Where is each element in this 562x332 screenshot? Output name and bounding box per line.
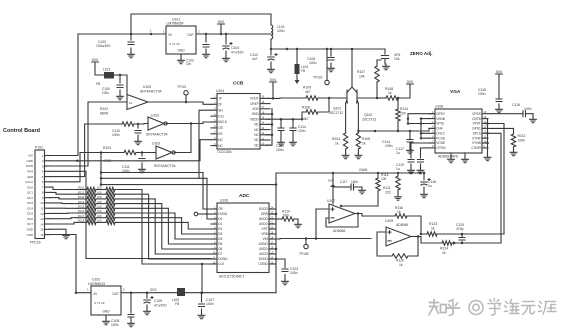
transistor Q102 bbox=[357, 90, 358, 105]
svg-text:VREF: VREF bbox=[250, 102, 259, 106]
wire U107 feedback bbox=[326, 214, 362, 228]
wire U107 +input bbox=[316, 209, 329, 239]
ground bbox=[496, 107, 503, 113]
wire vertical to VGA G bbox=[488, 133, 501, 243]
ground regulator bbox=[105, 315, 107, 319]
svg-text:5V0: 5V0 bbox=[407, 80, 413, 84]
svg-text:100n: 100n bbox=[112, 133, 120, 137]
svg-text:D0: D0 bbox=[218, 217, 222, 221]
svg-text:R104: R104 bbox=[332, 137, 340, 141]
svg-text:DRB: DRB bbox=[261, 212, 268, 216]
ground bbox=[407, 148, 414, 154]
svg-text:SN74AHCT04: SN74AHCT04 bbox=[140, 89, 162, 93]
svg-text:FB: FB bbox=[301, 69, 305, 73]
svg-text:ADC: ADC bbox=[239, 193, 250, 199]
svg-text:NC: NC bbox=[218, 144, 223, 148]
capacitor C117 bbox=[411, 143, 429, 168]
power 5V0 top bbox=[218, 24, 225, 28]
ferrite bead L105 bbox=[177, 288, 185, 296]
svg-text:R114: R114 bbox=[400, 107, 408, 111]
svg-text:100n: 100n bbox=[290, 271, 298, 275]
svg-text:1k: 1k bbox=[335, 142, 339, 146]
svg-text:1: 1 bbox=[163, 30, 165, 34]
svg-text:5: 5 bbox=[42, 175, 44, 179]
svg-text:SN74AHCT04: SN74AHCT04 bbox=[146, 133, 168, 137]
svg-text:CNTB: CNTB bbox=[472, 117, 481, 121]
resistor R115 bbox=[50, 207, 78, 209]
svg-text:GPSY: GPSY bbox=[436, 112, 446, 116]
svg-text:1: 1 bbox=[42, 154, 44, 158]
svg-text:CPGN: CPGN bbox=[436, 146, 446, 150]
svg-text:CLK: CLK bbox=[218, 262, 225, 266]
svg-text:100n: 100n bbox=[351, 180, 358, 184]
ground bbox=[268, 67, 275, 73]
ground VGA bottom bbox=[450, 153, 452, 157]
svg-text:VYNB: VYNB bbox=[472, 141, 481, 145]
resistor R112 bbox=[511, 134, 515, 147]
svg-text:10n: 10n bbox=[186, 62, 192, 66]
wire U103 output bbox=[174, 124, 191, 153]
svg-text:5V0: 5V0 bbox=[92, 58, 98, 62]
svg-text:GND: GND bbox=[177, 49, 185, 53]
svg-text:OS: OS bbox=[218, 126, 223, 130]
buffer U105 bbox=[127, 95, 148, 110]
svg-text:CGNR: CGNR bbox=[471, 146, 481, 150]
svg-text:FCLU: FCLU bbox=[25, 180, 33, 184]
svg-text:C TL nF: C TL nF bbox=[94, 301, 105, 305]
svg-text:R106: R106 bbox=[302, 106, 310, 110]
wire vertical to VGA R bbox=[488, 124, 504, 235]
capacitor C114 bbox=[292, 119, 294, 140]
svg-text:D5: D5 bbox=[218, 242, 222, 246]
resistor R110 bbox=[269, 218, 282, 220]
resistor R113 bbox=[50, 198, 78, 199]
capacitor C105 bbox=[119, 74, 122, 77]
svg-text:GND: GND bbox=[27, 227, 33, 231]
svg-text:U104: U104 bbox=[216, 89, 224, 93]
svg-text:1u: 1u bbox=[428, 184, 432, 188]
svg-text:VPSL: VPSL bbox=[436, 122, 444, 126]
node OE stub bbox=[194, 212, 198, 216]
svg-text:1k: 1k bbox=[388, 91, 392, 95]
svg-text:1: 1 bbox=[87, 288, 89, 292]
svg-text:R109: R109 bbox=[303, 86, 311, 90]
power arrow CCD supply bbox=[295, 80, 300, 84]
svg-text:DC4: DC4 bbox=[27, 206, 33, 210]
svg-text:DGND: DGND bbox=[258, 262, 268, 266]
svg-text:ICG: ICG bbox=[218, 114, 224, 118]
ground bbox=[417, 168, 424, 174]
resistor R105 bbox=[356, 133, 360, 149]
ground connector pin15 bbox=[50, 229, 66, 233]
resistor R108 bbox=[386, 96, 398, 100]
wire VGA right pin4 to R112 bbox=[488, 128, 514, 134]
svg-text:MCLK: MCLK bbox=[218, 120, 228, 124]
svg-text:220: 220 bbox=[385, 191, 391, 195]
svg-text:3V3: 3V3 bbox=[150, 288, 156, 292]
capacitor C119 bbox=[421, 148, 430, 168]
IC U106 ADC bbox=[217, 203, 269, 273]
svg-text:500: 500 bbox=[283, 214, 289, 218]
svg-text:1k: 1k bbox=[442, 251, 446, 255]
ground bbox=[342, 153, 349, 159]
resistor R115 bbox=[377, 173, 379, 178]
svg-text:DC2: DC2 bbox=[27, 196, 33, 200]
svg-text:DC7: DC7 bbox=[27, 222, 33, 226]
ferrite bead L103 bbox=[104, 72, 114, 79]
svg-text:VPSS: VPSS bbox=[472, 112, 481, 116]
svg-text:R124: R124 bbox=[440, 247, 448, 251]
svg-text:R107: R107 bbox=[357, 70, 365, 74]
svg-text:OE: OE bbox=[218, 207, 223, 211]
ground bbox=[135, 139, 142, 145]
svg-text:PCUE: PCUE bbox=[436, 136, 445, 140]
wire U105 input bbox=[50, 102, 127, 166]
svg-text:4k7: 4k7 bbox=[303, 117, 309, 121]
resistor R104 bbox=[343, 133, 347, 149]
svg-text:SH: SH bbox=[218, 108, 223, 112]
svg-text:VSNB: VSNB bbox=[436, 117, 445, 121]
svg-text:U106: U106 bbox=[220, 199, 228, 203]
svg-text:3: 3 bbox=[42, 164, 44, 168]
ground regulator tab bbox=[180, 54, 182, 58]
svg-text:D1: D1 bbox=[218, 222, 222, 226]
svg-text:IN: IN bbox=[169, 33, 173, 37]
trimmer VR1 zero adjust bbox=[384, 49, 386, 54]
capacitor C120 bbox=[461, 234, 463, 243]
svg-text:D7: D7 bbox=[218, 252, 222, 256]
svg-text:NC: NC bbox=[218, 138, 223, 142]
svg-text:AD8066: AD8066 bbox=[396, 223, 408, 227]
svg-text:DVDD: DVDD bbox=[259, 207, 269, 211]
ground bbox=[290, 140, 297, 146]
svg-text:VRB: VRB bbox=[261, 232, 268, 236]
wire VGA right ground tie bbox=[487, 119, 489, 155]
svg-text:100n: 100n bbox=[206, 302, 214, 306]
svg-text:10k: 10k bbox=[359, 75, 365, 79]
resistor R117 bbox=[50, 218, 78, 219]
ground bbox=[278, 140, 285, 146]
svg-text:16: 16 bbox=[40, 233, 44, 237]
svg-text:GND: GND bbox=[102, 310, 110, 314]
svg-text:AD8SS3ARS: AD8SS3ARS bbox=[438, 155, 459, 159]
voltage regulator U101 bbox=[166, 26, 196, 54]
ground bbox=[510, 150, 517, 156]
ground bbox=[328, 66, 335, 72]
ground bbox=[128, 52, 135, 58]
ground bbox=[223, 56, 230, 62]
svg-text:100u/16V: 100u/16V bbox=[96, 44, 111, 48]
resistor R106 bbox=[302, 112, 306, 119]
wire R115 to opamp bbox=[341, 205, 378, 207]
wire bases bbox=[340, 97, 377, 99]
ground bbox=[421, 192, 428, 198]
ground bbox=[408, 168, 415, 174]
connector P101 bbox=[35, 150, 45, 239]
svg-text:1k: 1k bbox=[431, 227, 435, 231]
capacitor C106 bbox=[330, 49, 332, 66]
resistor R123 bbox=[427, 232, 437, 236]
svg-text:AVDD: AVDD bbox=[259, 247, 268, 251]
wire U105 output bbox=[148, 102, 211, 104]
svg-text:SPLS: SPLS bbox=[473, 132, 481, 136]
svg-text:5V0: 5V0 bbox=[218, 20, 224, 24]
op-amp U107 bbox=[329, 204, 355, 223]
power 5V0 bias bbox=[407, 84, 414, 88]
svg-text:7: 7 bbox=[42, 185, 44, 189]
ground bbox=[530, 117, 537, 123]
svg-text:NC: NC bbox=[254, 128, 259, 132]
svg-text:1u: 1u bbox=[396, 151, 400, 155]
wire U109 feedback R120 bbox=[377, 232, 392, 256]
svg-text:L103: L103 bbox=[103, 68, 110, 72]
wire connector pin16 to regulator bbox=[50, 235, 76, 293]
capacitor C103 bbox=[205, 34, 207, 52]
svg-text:10k: 10k bbox=[394, 57, 400, 61]
svg-text:1k: 1k bbox=[397, 210, 401, 214]
svg-text:1k: 1k bbox=[399, 263, 403, 267]
wire CCD vref bbox=[266, 118, 302, 120]
svg-text:R103: R103 bbox=[103, 146, 111, 150]
wire R102 from connector bbox=[50, 124, 85, 177]
svg-text:14: 14 bbox=[40, 222, 44, 226]
wire U107 out to R106b bbox=[362, 214, 395, 217]
svg-text:ADC1175CIMCT: ADC1175CIMCT bbox=[219, 275, 244, 279]
wire ADC vin bbox=[269, 238, 371, 241]
svg-text:DC6: DC6 bbox=[27, 217, 33, 221]
svg-text:13: 13 bbox=[40, 217, 44, 221]
svg-text:100n: 100n bbox=[111, 323, 119, 327]
svg-text:VRT: VRT bbox=[261, 227, 267, 231]
capacitor C102 bbox=[130, 34, 132, 52]
svg-text:470p: 470p bbox=[456, 227, 464, 231]
wire U102 output bbox=[166, 122, 211, 124]
svg-text:D6: D6 bbox=[218, 247, 222, 251]
transistor Q101 bbox=[351, 49, 353, 86]
svg-text:100n: 100n bbox=[276, 148, 284, 152]
svg-text:OUT: OUT bbox=[112, 292, 119, 296]
resistor R114 bbox=[397, 98, 399, 109]
svg-text:2SC2712: 2SC2712 bbox=[329, 111, 343, 115]
wire bundle vertical bbox=[199, 110, 211, 178]
svg-text:IN: IN bbox=[94, 292, 98, 296]
power 5V0 left bbox=[92, 62, 99, 66]
svg-text:Q102: Q102 bbox=[364, 113, 372, 117]
wire analog supply rail bbox=[271, 48, 385, 50]
wire VGA right pin1 to C118 bbox=[488, 113, 523, 115]
svg-text:VDDD: VDDD bbox=[250, 117, 260, 121]
svg-text:C TL nF: C TL nF bbox=[169, 42, 180, 46]
capacitor C111 bbox=[141, 151, 144, 154]
svg-text:CNLC: CNLC bbox=[436, 132, 445, 136]
svg-text:D4: D4 bbox=[218, 237, 222, 241]
svg-text:AVDD: AVDD bbox=[259, 217, 268, 221]
svg-text:100n: 100n bbox=[385, 144, 393, 148]
svg-text:DAIN: DAIN bbox=[26, 164, 33, 168]
svg-text:GAIN: GAIN bbox=[359, 168, 368, 172]
svg-text:4u7: 4u7 bbox=[252, 57, 258, 61]
wire regulator output bbox=[196, 33, 271, 35]
svg-text:9: 9 bbox=[42, 196, 44, 200]
capacitor C107 bbox=[201, 293, 203, 313]
svg-text:OUT: OUT bbox=[187, 33, 194, 37]
svg-text:15: 15 bbox=[40, 228, 44, 232]
svg-text:TCD1304: TCD1304 bbox=[217, 150, 232, 154]
IC U108 VGA encoder bbox=[435, 109, 482, 153]
svg-text:TP105: TP105 bbox=[299, 252, 309, 256]
svg-text:FPC16: FPC16 bbox=[30, 241, 41, 245]
svg-text:NC: NC bbox=[254, 133, 259, 137]
svg-text:C104: C104 bbox=[231, 46, 239, 50]
svg-text:AVDD: AVDD bbox=[259, 252, 268, 256]
wire 3V3 rail bbox=[121, 292, 178, 294]
svg-text:100n: 100n bbox=[524, 107, 532, 111]
wire long bus down to ADC bbox=[50, 171, 211, 258]
ground bbox=[139, 167, 146, 173]
svg-text:R120: R120 bbox=[396, 259, 404, 263]
svg-text:DVDD: DVDD bbox=[259, 257, 269, 261]
resistor R116 bbox=[50, 212, 78, 214]
svg-text:LM78M033: LM78M033 bbox=[88, 282, 105, 286]
op-amp U109 bbox=[386, 227, 411, 246]
svg-text:U103: U103 bbox=[152, 142, 160, 146]
svg-text:SH8: SH8 bbox=[27, 175, 33, 179]
svg-text:2: 2 bbox=[42, 159, 44, 163]
svg-text:TP101: TP101 bbox=[177, 85, 187, 89]
resistor R102 bbox=[85, 123, 122, 125]
svg-text:AGND: AGND bbox=[259, 242, 269, 246]
svg-text:1k: 1k bbox=[362, 142, 366, 146]
svg-text:100k: 100k bbox=[518, 139, 526, 143]
wire top supply rail bbox=[78, 14, 271, 34]
svg-text:2: 2 bbox=[198, 30, 200, 34]
svg-text:11: 11 bbox=[40, 207, 43, 211]
svg-text:DC0: DC0 bbox=[27, 185, 33, 189]
svg-text:100: 100 bbox=[400, 112, 406, 116]
svg-text:2F: 2F bbox=[218, 103, 222, 107]
resistor R103 bbox=[50, 153, 124, 182]
resistor R120 bbox=[392, 254, 408, 258]
resistor R124 bbox=[442, 241, 452, 245]
svg-text:U102: U102 bbox=[151, 114, 159, 118]
ground bbox=[198, 313, 205, 319]
capacitor C116 bbox=[423, 173, 425, 192]
svg-text:D3: D3 bbox=[218, 232, 222, 236]
svg-text:SS: SS bbox=[218, 132, 222, 136]
svg-text:100n: 100n bbox=[478, 92, 486, 96]
svg-text:5VA: 5VA bbox=[328, 179, 333, 183]
wire long bus to gain stage bbox=[101, 185, 276, 209]
ground R110 bbox=[295, 222, 302, 228]
capacitor C113 bbox=[280, 119, 282, 140]
svg-text:FB: FB bbox=[96, 82, 100, 86]
svg-text:D2: D2 bbox=[218, 227, 222, 231]
svg-text:R111: R111 bbox=[383, 186, 391, 190]
svg-text:DVDD: DVDD bbox=[218, 212, 228, 216]
wire bus row3 bbox=[101, 178, 211, 219]
capacitor C118 bbox=[523, 111, 526, 117]
capacitor C115 bbox=[496, 99, 502, 102]
svg-text:R112: R112 bbox=[518, 134, 526, 138]
ground VGA bottom2 bbox=[464, 153, 466, 157]
svg-text:LM78M05F: LM78M05F bbox=[167, 22, 184, 26]
ferrite bead L104 bbox=[296, 49, 298, 80]
wire emitters bbox=[346, 105, 359, 133]
svg-text:R102: R102 bbox=[100, 107, 108, 111]
wire CCD vout bbox=[273, 97, 306, 99]
ground bbox=[144, 309, 151, 315]
ground bbox=[128, 321, 135, 327]
wire bus to CCD bbox=[50, 140, 211, 161]
svg-text:P101: P101 bbox=[35, 146, 43, 150]
svg-text:GND: GND bbox=[27, 159, 33, 163]
resistor R118 bbox=[50, 222, 78, 224]
svg-text:100n: 100n bbox=[298, 129, 306, 133]
svg-text:5V0: 5V0 bbox=[270, 78, 276, 82]
capacitor C112 bbox=[270, 49, 272, 67]
svg-text:+5V: +5V bbox=[28, 154, 33, 158]
ground bbox=[355, 153, 362, 159]
svg-text:NC: NC bbox=[254, 143, 259, 147]
wire CCD gnd tie bbox=[266, 109, 272, 145]
svg-text:1A: 1A bbox=[129, 101, 133, 105]
wire bus vertical x101 bbox=[100, 153, 102, 185]
resistor R111a bbox=[397, 173, 399, 176]
svg-text:Q101: Q101 bbox=[333, 107, 341, 111]
svg-text:CH4: CH4 bbox=[436, 127, 443, 131]
IC U104 CCD sensor bbox=[217, 94, 260, 150]
wire bus to ADC pin1 bbox=[101, 173, 211, 210]
svg-text:4: 4 bbox=[42, 170, 44, 174]
power 5V0 VGA bbox=[496, 74, 503, 78]
svg-text:VCNE: VCNE bbox=[436, 141, 445, 145]
svg-text:NC: NC bbox=[254, 123, 259, 127]
capacitor C114 bbox=[409, 131, 411, 148]
capacitor C108b bbox=[130, 293, 132, 321]
wire U109 output bbox=[411, 236, 421, 238]
svg-text:C117: C117 bbox=[340, 180, 348, 184]
svg-text:GPS1: GPS1 bbox=[472, 127, 481, 131]
svg-text:VGA: VGA bbox=[450, 89, 461, 95]
svg-text:SN74AHCT04: SN74AHCT04 bbox=[154, 164, 176, 168]
test point TP101 bbox=[185, 95, 187, 102]
wire VGA pin1 tie bbox=[408, 114, 435, 124]
svg-text:47u/16V: 47u/16V bbox=[154, 304, 167, 308]
svg-text:2SC2712: 2SC2712 bbox=[362, 118, 376, 122]
capacitor C104 bbox=[225, 34, 227, 56]
resistor R114 bbox=[50, 202, 78, 205]
svg-text:TP102: TP102 bbox=[313, 76, 323, 80]
svg-text:4k7: 4k7 bbox=[305, 90, 311, 94]
wire VGA left tie bbox=[421, 119, 429, 139]
svg-text:100n: 100n bbox=[102, 91, 109, 95]
svg-text:2: 2 bbox=[123, 288, 125, 292]
capacitor C121 bbox=[338, 186, 351, 188]
svg-text:NC: NC bbox=[254, 138, 259, 142]
svg-text:680R: 680R bbox=[100, 112, 109, 116]
test point TP105 bbox=[305, 239, 307, 245]
inverter U103 bbox=[156, 146, 172, 159]
svg-text:VPST: VPST bbox=[472, 122, 480, 126]
svg-text:U107: U107 bbox=[327, 199, 335, 203]
svg-text:VIN: VIN bbox=[262, 237, 268, 241]
svg-text:FB: FB bbox=[175, 302, 179, 306]
svg-text:U109: U109 bbox=[385, 219, 393, 223]
svg-text:12: 12 bbox=[40, 212, 44, 216]
ground VR1 bbox=[384, 59, 386, 65]
power 5V0 CCD bbox=[270, 82, 277, 86]
ground bbox=[484, 155, 491, 161]
